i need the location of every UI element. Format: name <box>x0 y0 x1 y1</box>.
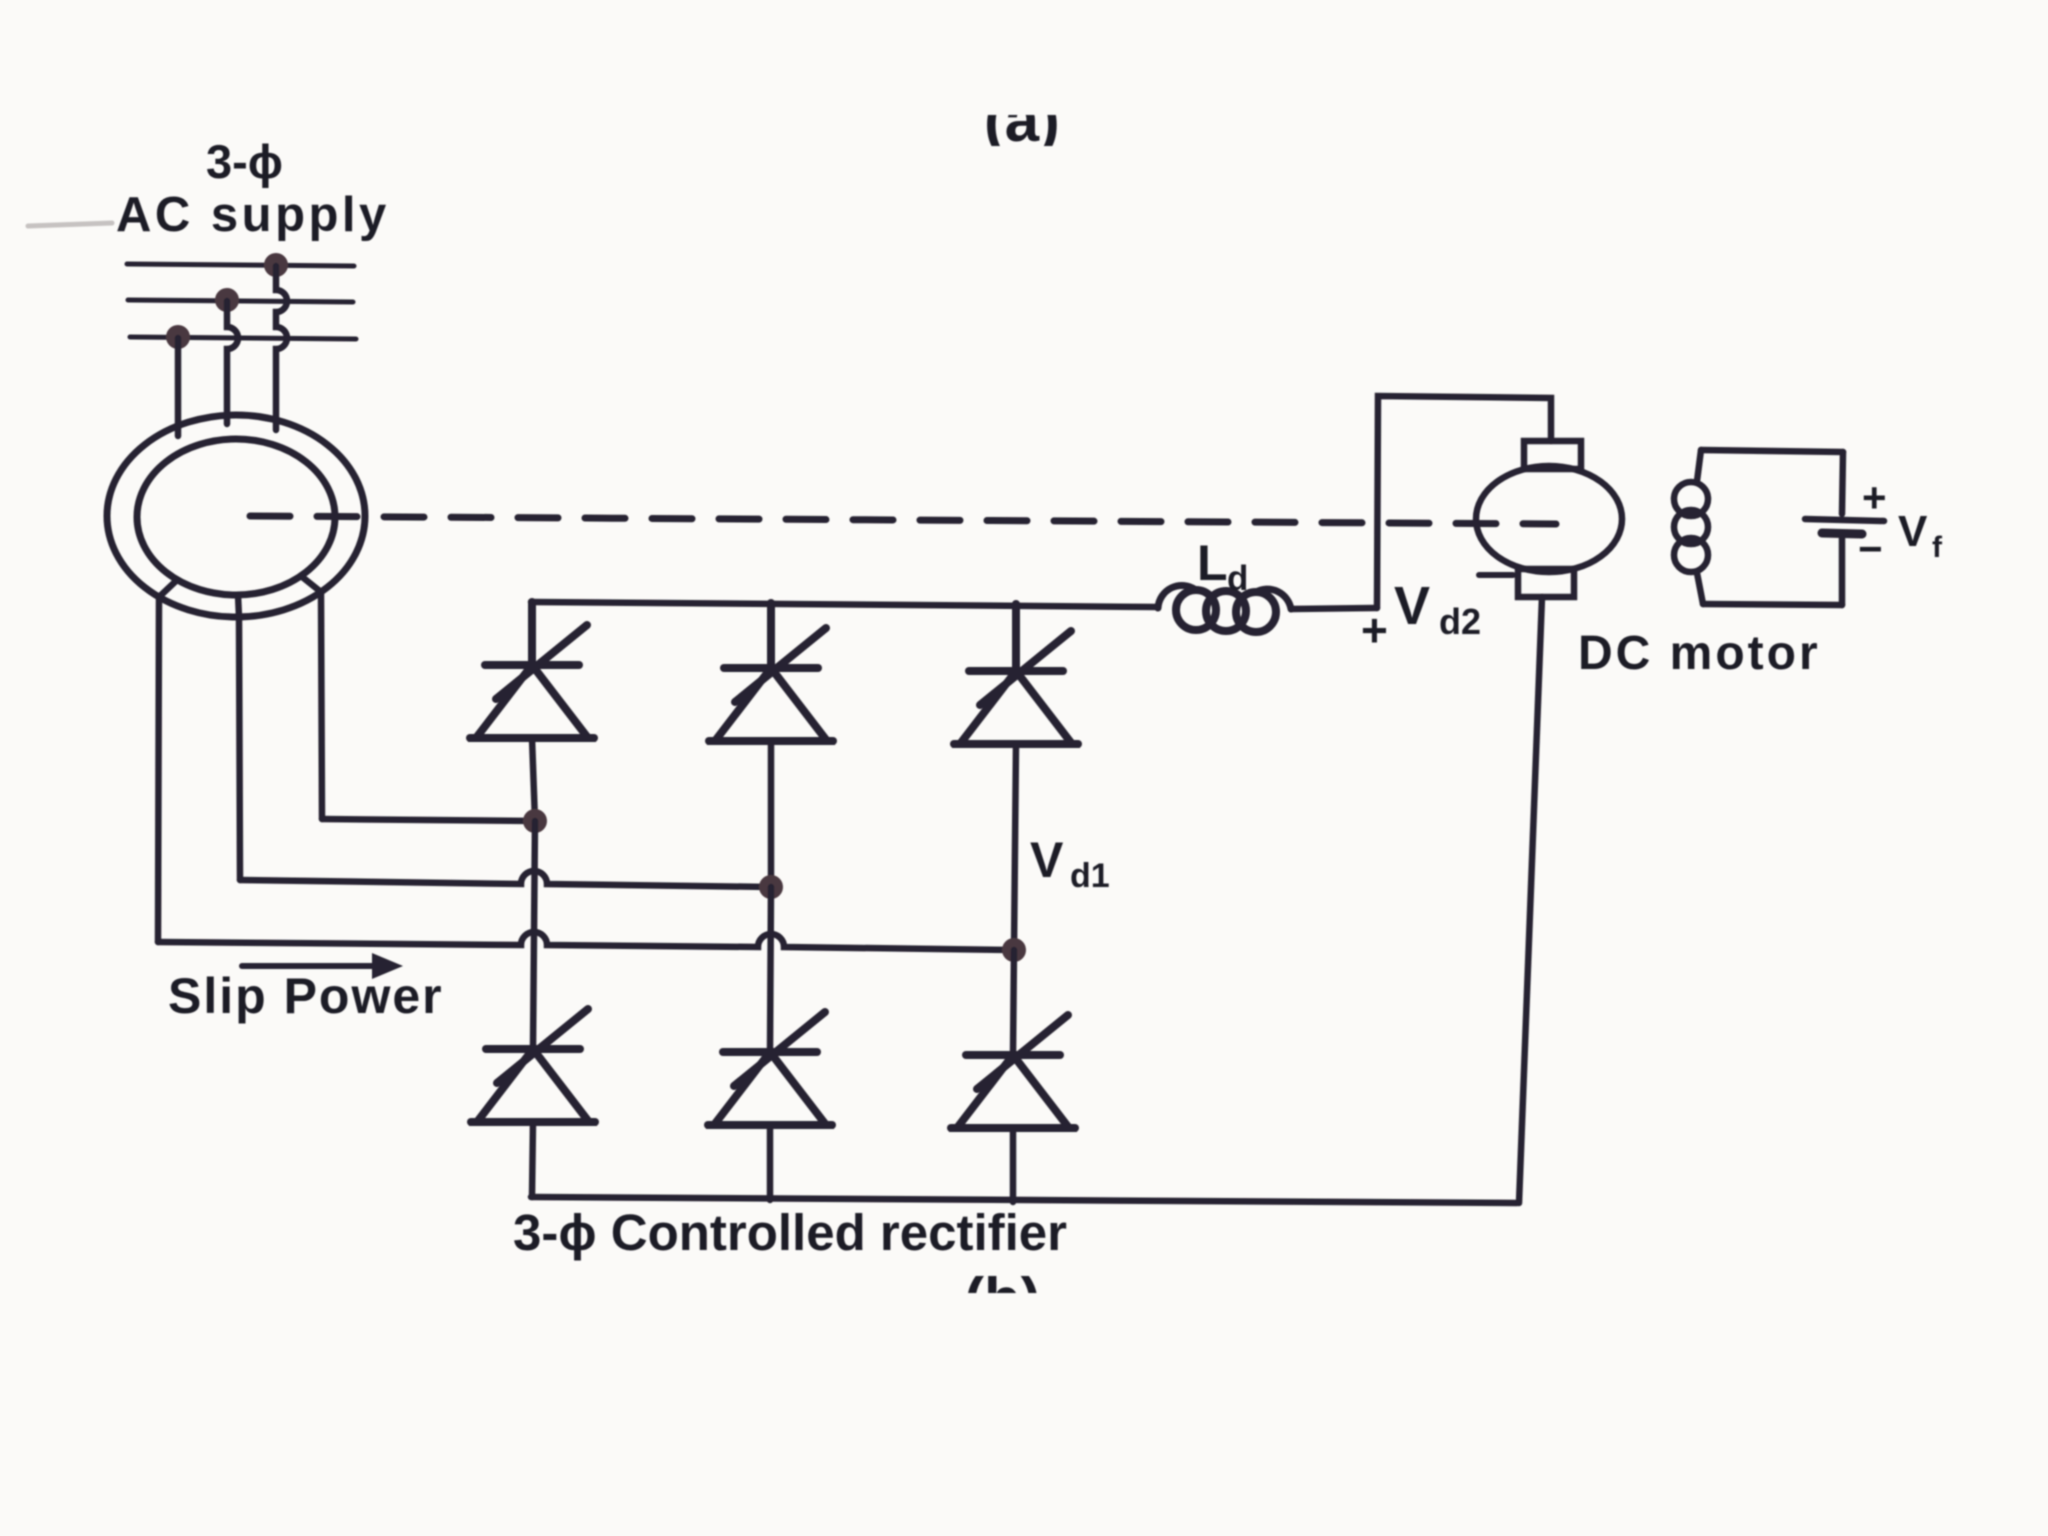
label plus Vf <box>1858 474 1943 572</box>
wire T2 anode to node <box>768 741 775 887</box>
wire motor left leg <box>158 598 159 942</box>
label plus Vd2 <box>1361 576 1481 656</box>
svg-text:+: + <box>1361 604 1388 656</box>
wire motor middle leg <box>239 617 240 880</box>
node dot leg1 <box>523 809 547 833</box>
bottom bus wire <box>531 1197 1517 1203</box>
svg-text:3-ϕ: 3-ϕ <box>206 135 283 188</box>
thyristor T6 <box>951 1015 1075 1128</box>
wire supply line A <box>127 264 354 266</box>
svg-text:V: V <box>1898 507 1928 556</box>
svg-text:V: V <box>1394 576 1430 636</box>
node dot phase A <box>264 253 288 277</box>
battery Vf short plate <box>1822 533 1862 534</box>
rotor lead left <box>159 580 177 597</box>
wire T3 anode to node <box>1014 744 1016 950</box>
svg-text:V: V <box>1030 832 1064 888</box>
svg-text:d1: d1 <box>1070 857 1110 895</box>
battery Vf long plate <box>1805 519 1884 521</box>
svg-text:AC supply: AC supply <box>116 188 390 242</box>
wire supply line B <box>128 300 353 302</box>
thyristor T2 <box>709 603 833 741</box>
wire dc motor return <box>1519 597 1542 1203</box>
svg-text:3-ϕ Controlled rectifier: 3-ϕ Controlled rectifier <box>513 1204 1067 1261</box>
scanner artifact dash top-left <box>28 223 112 226</box>
rotor lead right <box>301 576 321 592</box>
field circuit rectangle top <box>1701 450 1843 452</box>
shaft dashed line <box>250 516 1556 524</box>
node dot phase B <box>215 288 239 312</box>
wire phase C drop <box>175 338 182 436</box>
wire T4 anode to bus <box>532 1122 533 1197</box>
wire 1 to leg1 node <box>322 819 535 821</box>
svg-text:−: − <box>1858 525 1883 572</box>
inductor Ld coil <box>1158 585 1196 608</box>
rotor lead middle <box>238 595 239 617</box>
thyristor T5 <box>708 1012 832 1125</box>
svg-text:DC motor: DC motor <box>1578 627 1821 680</box>
dc motor top brush <box>1524 441 1581 469</box>
field circuit bottom <box>1703 604 1842 605</box>
svg-text:d: d <box>1227 559 1248 598</box>
wire leg1 mid <box>533 821 535 1049</box>
wire T5 anode to bus <box>767 1125 774 1200</box>
induction motor inner ring <box>137 439 335 595</box>
node dot leg2 <box>759 875 783 899</box>
label (a) partial top caption <box>984 86 1060 155</box>
wire coil to corner <box>1291 608 1377 609</box>
dc motor bottom brush <box>1518 569 1574 597</box>
field winding coil <box>1697 450 1701 481</box>
wire T6 anode to bus <box>1010 1128 1017 1202</box>
svg-text:d2: d2 <box>1439 601 1481 642</box>
svg-text:+: + <box>1862 474 1887 521</box>
wire motor right leg <box>321 592 322 819</box>
wire supply line C <box>130 337 356 339</box>
label (b) partial bottom caption <box>964 1266 1041 1333</box>
field circuit right upper <box>1842 452 1843 514</box>
wire leg3 mid <box>1013 950 1014 1055</box>
wire 3 to leg3 node with hops <box>158 932 1014 950</box>
slip power arrow <box>242 963 374 969</box>
label Ld <box>1197 535 1248 598</box>
field circuit right lower <box>1839 534 1846 605</box>
wire phase B drop with hop <box>227 301 238 424</box>
wire leg2 mid <box>770 887 771 1052</box>
svg-text:L: L <box>1197 535 1228 591</box>
svg-text:(a): (a) <box>984 86 1060 155</box>
top bus wire <box>531 602 1158 607</box>
thyristor T3 <box>954 604 1078 744</box>
svg-text:(b): (b) <box>964 1266 1041 1333</box>
label Vd1 <box>1030 832 1110 895</box>
wire 2 to leg2 node with hop <box>240 871 771 887</box>
node dot leg3 <box>1002 938 1026 962</box>
thyristor T4 <box>471 1009 595 1122</box>
wire phase A drop with hops <box>276 266 287 430</box>
svg-text:f: f <box>1932 531 1943 564</box>
svg-text:Slip Power: Slip Power <box>168 968 444 1024</box>
induction motor outer ring <box>107 415 365 617</box>
label minus at bottom brush <box>1479 572 1513 578</box>
wire corner up and over to dc motor <box>1377 396 1551 608</box>
wire T1 anode to node <box>532 738 535 821</box>
dc motor armature circle <box>1476 466 1622 572</box>
node dot phase C <box>166 325 190 349</box>
thyristor T1 <box>470 602 594 738</box>
